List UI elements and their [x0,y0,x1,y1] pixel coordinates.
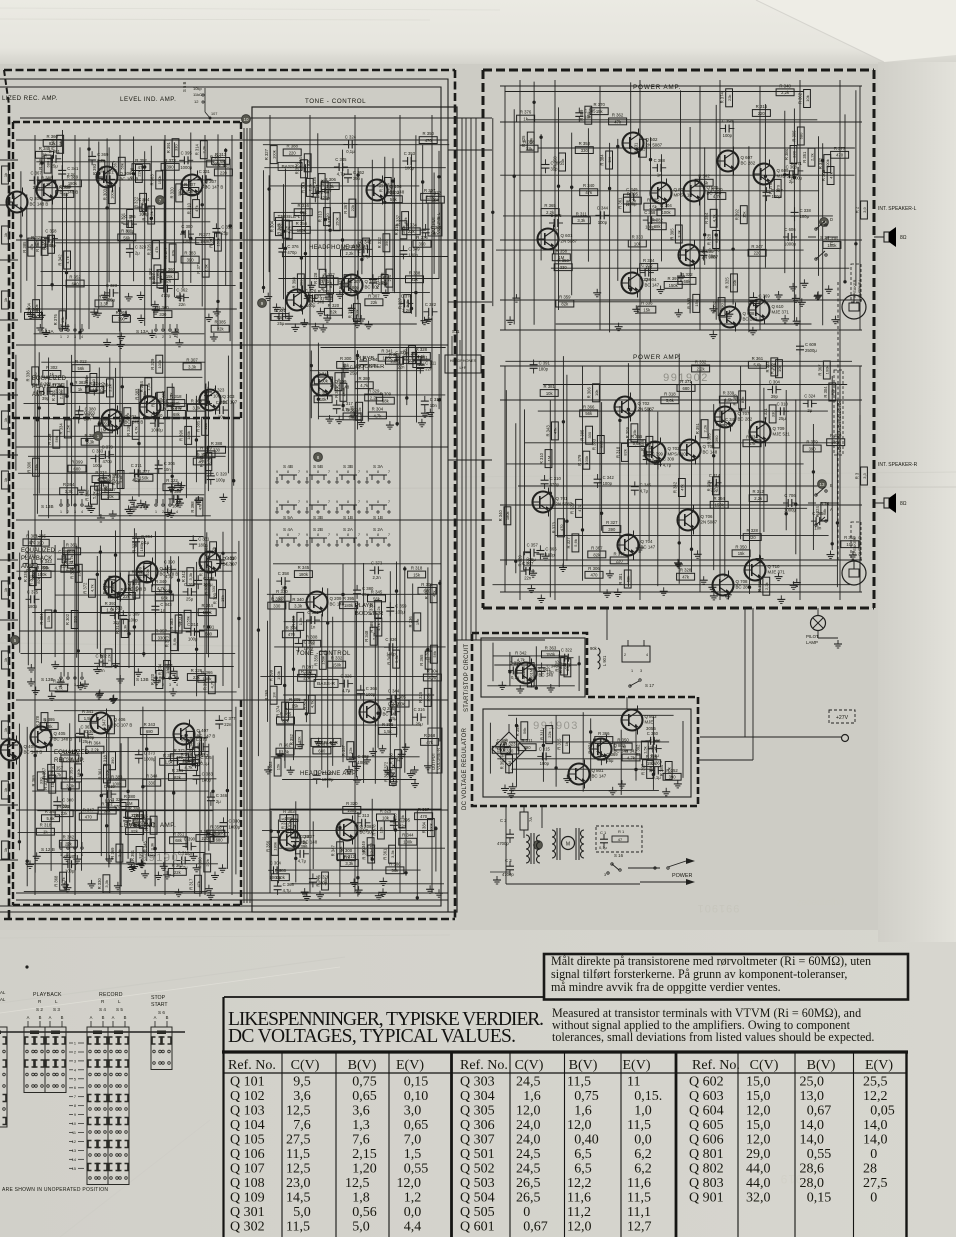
svg-text:R 395: R 395 [627,192,639,197]
svg-text:2,2k: 2,2k [106,654,111,662]
svg-text:10k: 10k [49,770,54,776]
svg-text:A: A [90,1015,93,1020]
svg-text:7: 7 [388,500,390,504]
svg-text:C 300: C 300 [181,224,193,229]
svg-text:R 397: R 397 [208,236,213,248]
svg-text:1: 1 [155,335,157,339]
svg-text:107: 107 [211,112,217,116]
svg-text:2,2k: 2,2k [702,425,707,433]
svg-text:68k: 68k [382,399,390,404]
svg-text:Q 710: Q 710 [768,564,781,569]
svg-text:C 307: C 307 [350,279,362,284]
svg-text:BC 148: BC 148 [335,385,350,390]
svg-text:Q 609: Q 609 [777,168,790,173]
svg-text:C 338: C 338 [800,208,812,213]
svg-text:A: A [830,507,833,512]
svg-text:Q 605: Q 605 [707,185,720,190]
svg-text:C 306: C 306 [164,461,176,466]
svg-text:R 388: R 388 [286,143,298,148]
svg-text:4,7k: 4,7k [373,413,382,418]
svg-text:0,75: 0,75 [574,1089,599,1104]
svg-text:47k: 47k [176,621,181,627]
svg-text:15k: 15k [738,551,746,556]
svg-text:Q 801: Q 801 [592,768,605,773]
svg-text:R 390: R 390 [198,857,203,869]
svg-text:R 388: R 388 [211,441,223,446]
svg-text:C 357: C 357 [527,543,539,548]
svg-text:11,5: 11,5 [627,1191,651,1206]
svg-text:C 316: C 316 [414,707,426,712]
svg-text:Q 305: Q 305 [460,1104,495,1119]
svg-text:180p: 180p [539,367,549,372]
svg-text:LOUDSPEAKER SELECTOR: LOUDSPEAKER SELECTOR [837,399,842,452]
svg-text:1,5k: 1,5k [384,729,393,734]
svg-text:10k: 10k [634,241,642,246]
svg-text:2,2k: 2,2k [370,395,379,400]
svg-text:7A: 7A [528,817,533,822]
svg-text:22n: 22n [179,302,187,307]
svg-text:2: 2 [624,653,626,657]
svg-text:R 363: R 363 [150,174,155,186]
svg-text:Q 602: Q 602 [689,1075,724,1090]
svg-text:1M: 1M [558,255,564,260]
svg-text:10k: 10k [546,391,554,396]
svg-text:Q 302: Q 302 [230,1220,265,1235]
svg-text:R 316: R 316 [756,104,768,109]
svg-text:0,75: 0,75 [352,1075,377,1090]
svg-text:4: 4 [81,335,83,339]
svg-text:S 3: S 3 [53,1007,60,1012]
svg-text:B: B [124,1015,127,1020]
svg-text:25μ: 25μ [390,716,398,721]
svg-text:C 310: C 310 [550,476,562,481]
svg-text:EQUALIZED: EQUALIZED [21,548,56,554]
svg-text:POWER: POWER [672,873,692,879]
svg-text:R 381: R 381 [172,768,184,773]
svg-text:Q 303: Q 303 [460,1075,495,1090]
svg-text:13: 13 [72,1149,76,1153]
svg-text:2,2n: 2,2n [97,158,106,163]
svg-text:12,5: 12,5 [286,1104,311,1119]
svg-text:R 325: R 325 [418,691,423,703]
svg-text:R 338: R 338 [409,270,421,275]
svg-text:100p: 100p [598,220,608,225]
svg-text:R 329: R 329 [47,433,52,445]
svg-text:C 378: C 378 [401,293,413,298]
svg-text:R 374: R 374 [276,705,281,717]
svg-text:R 340: R 340 [155,579,167,584]
svg-text:14,5: 14,5 [286,1191,311,1206]
svg-text:1,5k: 1,5k [149,211,154,219]
svg-text:3,3k: 3,3k [104,880,109,888]
svg-text:C 310: C 310 [430,397,442,402]
svg-text:C: C [497,746,500,751]
svg-text:4,7μ: 4,7μ [283,888,292,893]
svg-text:28,6: 28,6 [800,1162,825,1177]
svg-text:BC 148 B: BC 148 B [125,420,144,425]
svg-text:BC 148 B: BC 148 B [54,737,73,742]
svg-text:R 399: R 399 [269,669,274,681]
svg-text:82k: 82k [355,309,360,315]
svg-text:0: 0 [870,1147,877,1162]
svg-text:R: R [0,788,1,791]
svg-text:R 305: R 305 [707,433,712,445]
svg-text:26,5: 26,5 [516,1191,541,1206]
svg-text:R 395: R 395 [669,228,674,240]
svg-text:15k: 15k [413,572,421,577]
svg-text:470p: 470p [161,293,171,298]
svg-text:C 394: C 394 [722,119,734,124]
svg-text:C 390: C 390 [164,559,176,564]
svg-text:R 392: R 392 [424,587,429,599]
svg-text:22k: 22k [297,736,302,742]
svg-text:15k: 15k [742,211,747,217]
svg-text:C 350: C 350 [108,474,120,479]
svg-text:180k: 180k [284,816,294,821]
svg-text:TREBLE-L: TREBLE-L [278,214,301,220]
svg-text:82k: 82k [170,250,175,256]
svg-text:S 5 B: S 5 B [182,82,187,92]
svg-text:0,56: 0,56 [352,1205,377,1220]
svg-text:C 324: C 324 [378,275,390,280]
svg-text:BC 147: BC 147 [645,283,660,288]
svg-text:1k: 1k [3,848,8,852]
svg-text:C 344: C 344 [597,205,609,210]
svg-text:6: 6 [74,1086,76,1090]
svg-text:R 381: R 381 [618,573,623,585]
svg-text:100μ: 100μ [188,636,198,641]
svg-text:R 318: R 318 [103,754,108,766]
svg-text:Q 301: Q 301 [230,1205,265,1220]
svg-text:7: 7 [74,1095,76,1099]
svg-text:4,7μ: 4,7μ [132,478,141,483]
svg-text:100μ: 100μ [93,463,103,468]
svg-text:R 300: R 300 [341,848,353,853]
svg-text:330: 330 [770,410,775,417]
svg-text:24,0: 24,0 [516,1133,541,1148]
svg-text:A: A [27,1015,30,1020]
svg-text:MJE 521: MJE 521 [777,174,795,179]
svg-text:R 383: R 383 [111,775,123,780]
svg-text:Q 206: Q 206 [383,706,396,711]
svg-text:1n: 1n [428,316,433,321]
svg-text:R 383: R 383 [169,618,174,630]
svg-text:25,0: 25,0 [800,1075,825,1090]
svg-text:R 373: R 373 [164,158,176,163]
svg-text:Q 208: Q 208 [360,824,373,829]
svg-text:11,5: 11,5 [286,1147,310,1162]
svg-text:3,3k: 3,3k [345,861,354,866]
svg-text:Q 105: Q 105 [230,1133,265,1148]
svg-text:470: 470 [836,153,844,158]
svg-text:100p: 100p [772,194,782,199]
svg-text:470: 470 [420,814,428,819]
svg-text:Q 207: Q 207 [303,834,316,839]
svg-text:R 328: R 328 [313,272,318,284]
svg-text:2μ: 2μ [789,179,794,184]
svg-text:2,2k: 2,2k [764,582,769,590]
svg-text:330: 330 [148,781,156,786]
svg-text:R 395: R 395 [580,429,585,441]
svg-text:220: 220 [202,836,210,841]
svg-text:22n: 22n [399,824,407,829]
svg-text:BC 148 B: BC 148 B [128,587,147,592]
svg-text:HEADPHONE AMP.: HEADPHONE AMP. [309,245,366,251]
svg-text:15k: 15k [415,619,420,625]
svg-text:1k: 1k [3,588,8,592]
svg-text:100p: 100p [128,617,138,622]
svg-text:14: 14 [72,1158,76,1162]
svg-text:BC 147 B: BC 147 B [205,185,224,190]
svg-text:Q 610: Q 610 [772,304,785,309]
svg-text:10k: 10k [382,815,390,820]
svg-text:R 305: R 305 [791,130,796,142]
svg-text:ARE SHOWN IN UNOPERATED POSITI: ARE SHOWN IN UNOPERATED POSITION [2,1187,108,1193]
svg-text:PLAYBACK: PLAYBACK [32,384,63,390]
svg-text:R 398: R 398 [190,501,195,513]
svg-text:11,5: 11,5 [627,1118,651,1133]
svg-text:470p: 470p [287,250,297,255]
svg-text:R 372: R 372 [430,191,442,196]
svg-text:29,0: 29,0 [746,1147,771,1162]
svg-text:S 13A: S 13A [136,329,149,334]
svg-text:C 382: C 382 [358,754,370,759]
svg-text:150k: 150k [401,225,406,234]
svg-text:2μ: 2μ [500,752,505,757]
svg-text:26,5: 26,5 [516,1176,541,1191]
svg-text:C 373: C 373 [144,751,156,756]
svg-text:330: 330 [159,312,167,317]
svg-text:90k: 90k [590,646,598,651]
svg-text:Q 307: Q 307 [460,1133,495,1148]
svg-text:R 392: R 392 [635,744,640,756]
svg-text:C: C [830,241,833,246]
svg-text:100μ: 100μ [405,166,415,171]
svg-text:47k: 47k [194,205,199,211]
svg-text:S 3B: S 3B [343,464,353,469]
svg-text:390: 390 [669,775,677,780]
svg-text:C 377: C 377 [522,561,534,566]
svg-text:470: 470 [288,632,296,637]
svg-text:Q 102: Q 102 [230,1089,265,1104]
svg-text:100k: 100k [105,770,110,779]
svg-text:R 345: R 345 [142,840,147,852]
svg-text:LEVEL IND. AMP.: LEVEL IND. AMP. [120,96,176,103]
svg-text:68k: 68k [175,838,183,843]
svg-text:8: 8 [317,470,319,474]
svg-text:Q 701: Q 701 [556,496,569,501]
svg-text:BOOSTER: BOOSTER [355,611,383,617]
svg-text:9: 9 [276,470,278,474]
svg-text:100μ: 100μ [627,202,637,207]
svg-text:390: 390 [809,446,817,451]
svg-text:Q 901: Q 901 [689,1191,724,1206]
svg-text:C 380: C 380 [649,739,661,744]
svg-text:1000μ: 1000μ [269,875,281,880]
svg-text:56k: 56k [120,163,125,169]
svg-text:0,15: 0,15 [404,1075,429,1090]
svg-text:1n: 1n [160,608,165,613]
svg-text:AMP.: AMP. [32,392,46,398]
svg-text:39p: 39p [353,176,361,181]
svg-text:22k: 22k [303,676,311,681]
svg-text:15,0: 15,0 [746,1075,771,1090]
svg-text:3,3k: 3,3k [65,489,74,494]
svg-text:Q 403: Q 403 [223,556,236,561]
svg-text:AL: AL [0,997,6,1002]
svg-text:100k: 100k [157,360,162,369]
svg-text:Q 803: Q 803 [645,714,658,719]
svg-text:R 332: R 332 [818,157,823,169]
svg-text:R 366: R 366 [583,404,595,409]
svg-text:R 3: R 3 [855,472,860,479]
svg-text:R: R [0,658,1,661]
svg-text:BC 107: BC 107 [365,285,380,290]
svg-text:Q 704: Q 704 [641,539,654,544]
svg-text:R 319: R 319 [300,181,305,193]
svg-text:C 395: C 395 [399,818,411,823]
svg-text:82k: 82k [740,397,745,403]
svg-text:4: 4 [176,335,178,339]
svg-text:82k: 82k [623,449,628,455]
svg-text:330: 330 [506,749,514,754]
svg-text:S 2A: S 2A [373,527,384,532]
svg-text:180k: 180k [505,511,510,520]
svg-text:390: 390 [187,258,195,263]
svg-text:470: 470 [425,138,433,143]
svg-text:C 365: C 365 [812,511,824,516]
svg-text:C 375: C 375 [27,589,39,594]
svg-text:100μ: 100μ [304,645,314,650]
svg-text:3: 3 [74,335,76,339]
svg-text:15,0: 15,0 [746,1118,771,1133]
svg-text:56k: 56k [392,868,400,873]
svg-text:44,0: 44,0 [746,1176,771,1191]
svg-text:3,3k: 3,3k [123,625,128,633]
svg-text:R 342: R 342 [672,481,677,493]
svg-text:BC 148 B: BC 148 B [60,190,79,195]
svg-text:3,3k: 3,3k [66,783,75,788]
svg-text:1000μ: 1000μ [144,757,156,762]
svg-text:R 346: R 346 [38,158,43,170]
svg-text:2,2k: 2,2k [809,153,814,161]
svg-text:C 320: C 320 [216,472,228,477]
svg-text:R 361: R 361 [279,743,291,748]
svg-text:4,7μ: 4,7μ [342,688,351,693]
svg-text:25μ: 25μ [350,371,358,376]
svg-text:B(V): B(V) [807,1058,836,1073]
svg-text:C 306: C 306 [58,549,70,554]
svg-text:C 371: C 371 [131,463,143,468]
svg-text:3,0: 3,0 [404,1104,422,1119]
svg-text:C 317: C 317 [342,401,354,406]
svg-text:R 302: R 302 [46,365,58,370]
svg-text:R 391: R 391 [203,625,215,630]
svg-text:5,6k: 5,6k [47,816,56,821]
svg-text:C 346: C 346 [216,793,228,798]
svg-text:10n: 10n [218,415,226,420]
svg-text:470: 470 [85,815,93,820]
svg-text:2: 2 [67,335,69,339]
svg-text:Q 802: Q 802 [614,743,627,748]
svg-text:START: START [151,1002,168,1008]
svg-text:R: R [0,588,1,591]
svg-text:R 356: R 356 [265,840,270,852]
svg-text:R 364: R 364 [63,482,75,487]
svg-text:24,0: 24,0 [516,1118,541,1133]
svg-text:0,15: 0,15 [807,1191,832,1206]
svg-text:180p: 180p [408,252,418,257]
svg-text:BC 148: BC 148 [390,190,405,195]
svg-text:R 317: R 317 [189,878,194,890]
svg-text:BC 107 B: BC 107 B [114,723,133,728]
svg-text:1k: 1k [3,233,8,237]
svg-text:2,2k: 2,2k [781,90,790,95]
svg-text:4,7k: 4,7k [157,586,166,591]
svg-text:7: 7 [328,470,330,474]
svg-text:R 356: R 356 [296,221,308,226]
svg-text:100p: 100p [603,481,613,486]
svg-text:START/STOP CIRCUIT: START/STOP CIRCUIT [464,644,470,712]
svg-text:R 332: R 332 [377,237,382,249]
svg-text:25,5: 25,5 [863,1075,888,1090]
svg-text:5,6k: 5,6k [320,275,325,283]
svg-text:R 367: R 367 [591,545,603,550]
svg-text:100p: 100p [105,799,115,804]
svg-text:INT. SPEAKER-L: INT. SPEAKER-L [878,206,917,212]
svg-text:C 340: C 340 [647,731,659,736]
svg-text:R 376: R 376 [416,235,428,240]
svg-text:220: 220 [220,170,228,175]
svg-text:82k: 82k [284,226,289,232]
svg-text:C 387: C 387 [320,189,332,194]
svg-text:2μ: 2μ [216,799,221,804]
svg-text:56k: 56k [373,596,381,601]
svg-text:680: 680 [714,235,719,242]
svg-text:R 357: R 357 [52,766,64,771]
svg-text:470p: 470p [550,482,560,487]
svg-text:3,9: 3,9 [862,206,867,212]
svg-text:R 315: R 315 [557,738,562,750]
svg-text:100p: 100p [540,761,550,766]
svg-text:Q 601: Q 601 [561,233,574,238]
svg-text:39p: 39p [771,394,779,399]
svg-text:C 336: C 336 [385,637,397,642]
svg-text:12,0: 12,0 [567,1118,592,1133]
svg-text:4,7μ: 4,7μ [337,172,346,177]
svg-text:22k: 22k [727,95,732,101]
svg-text:R 384: R 384 [421,821,426,833]
svg-text:4,7μ: 4,7μ [663,463,672,468]
svg-text:4,7k: 4,7k [206,458,211,466]
svg-text:68k: 68k [626,576,631,582]
svg-text:47: 47 [618,837,623,842]
svg-text:S 5A: S 5A [283,515,294,520]
svg-text:4: 4 [81,853,83,857]
svg-text:22k: 22k [217,327,225,332]
svg-text:S 14: S 14 [820,235,830,240]
svg-text:14,0: 14,0 [863,1133,888,1148]
svg-text:C 342: C 342 [360,239,372,244]
svg-text:470: 470 [577,504,582,511]
svg-text:S 2: S 2 [36,1007,43,1012]
svg-text:Q 303: Q 303 [223,394,236,399]
svg-text:R 368: R 368 [424,733,436,738]
svg-text:180k: 180k [299,572,309,577]
svg-text:2,2k: 2,2k [754,496,763,501]
svg-text:C 358: C 358 [278,571,290,576]
svg-text:C 358: C 358 [644,210,656,215]
